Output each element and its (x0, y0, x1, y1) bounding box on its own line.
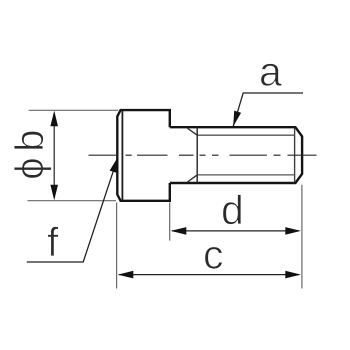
arrow a leader (233, 111, 241, 127)
arrow c left (118, 271, 134, 279)
thread runout diagonal bottom (188, 175, 198, 182)
svg-text:c: c (203, 232, 224, 278)
extension line c left (116, 203, 118, 289)
thread root line top (197, 134, 294, 136)
thread root line bottom (197, 174, 294, 176)
arrow phi-b top (50, 111, 58, 127)
head chamfer face line (121, 111, 123, 201)
leader line f (27, 157, 118, 262)
svg-text:a: a (259, 48, 282, 94)
svg-text:d: d (221, 187, 244, 233)
dimension line c (119, 274, 299, 276)
thread runout diagonal top (188, 128, 198, 135)
extension line d left (169, 203, 171, 241)
extension line right shared (301, 185, 303, 289)
extension line phi-b bottom (28, 200, 117, 202)
dimension line d (172, 230, 299, 232)
point chamfer start line (294, 128, 296, 183)
arrow f leader (110, 157, 118, 173)
dimension line phi-b (53, 113, 55, 198)
shank / thread outline (170, 127, 302, 183)
arrow phi-b bottom (50, 185, 58, 201)
center line (89, 154, 317, 156)
svg-text:f: f (47, 219, 59, 265)
arrow d right (285, 227, 301, 235)
screw head outline (117, 110, 170, 201)
extension line phi-b top (29, 109, 118, 111)
arrow c right (285, 271, 301, 279)
complete thread boundary line (196, 127, 198, 182)
leader line a (233, 93, 303, 126)
arrow d left (171, 227, 187, 235)
svg-text:ϕb: ϕb (8, 124, 52, 180)
